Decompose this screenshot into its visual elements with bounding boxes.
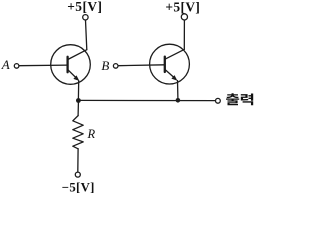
transistor Q1 base bar	[66, 57, 68, 72]
supply terminal -5V	[75, 172, 80, 177]
wire: resistor R to -5V terminal	[77, 149, 79, 172]
transistor Q2 body circle	[150, 44, 190, 84]
transistor Q1 collector	[68, 50, 87, 60]
svg-text:−5[V]: −5[V]	[62, 180, 95, 194]
svg-text:R: R	[87, 127, 96, 141]
transistor Q2 collector	[165, 49, 184, 59]
supply terminal +5V (right)	[181, 14, 187, 20]
output terminal	[216, 98, 221, 103]
input terminal B	[113, 64, 118, 69]
node junction dot (left)	[76, 98, 81, 103]
svg-text:+5[V]: +5[V]	[67, 0, 102, 14]
transistor Q1 body circle	[51, 45, 91, 85]
wire: Q2 emitter to node	[177, 81, 179, 99]
resistor R zigzag	[73, 116, 83, 149]
transistor Q2 emitter with arrow	[165, 70, 175, 79]
svg-text:A: A	[1, 57, 10, 72]
supply terminal +5V (left)	[83, 15, 88, 20]
wire: +5V terminal to Q2 collector	[183, 20, 185, 49]
wire: A terminal to Q1 base	[19, 64, 67, 67]
input terminal A	[14, 64, 19, 69]
transistor Q1 emitter with arrow	[68, 70, 77, 79]
svg-text:B: B	[101, 58, 109, 73]
wire: +5V terminal to Q1 collector	[86, 20, 87, 50]
label output hangul 력	[241, 94, 253, 106]
wire: emitter bus to output	[78, 99, 215, 101]
label output hangul 출	[226, 93, 239, 105]
node junction dot (right)	[176, 98, 181, 103]
transistor Q2 base bar	[164, 57, 166, 72]
wire: node to resistor R	[77, 103, 79, 116]
wire: B terminal to Q2 base	[118, 64, 164, 67]
wire: Q1 emitter to node	[77, 81, 79, 99]
svg-text:+5[V]: +5[V]	[165, 0, 200, 14]
